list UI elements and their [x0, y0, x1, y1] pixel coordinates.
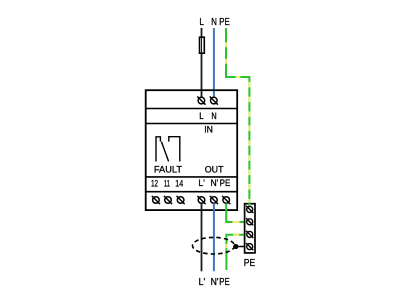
divider above 12 11 14 label row: [146, 176, 238, 178]
svg-text:N': N': [211, 277, 219, 288]
svg-text:PE: PE: [244, 258, 256, 269]
svg-text:L': L': [198, 178, 205, 188]
svg-text:N': N': [210, 178, 218, 188]
wire N' output (blue): [213, 203, 215, 271]
wire L' output (black): [201, 203, 203, 271]
relay contact: terminal 14 post: [169, 137, 180, 162]
device box outline: [146, 90, 238, 210]
relay contact: moving arm (11): [161, 142, 168, 162]
wire PE from rail screw 3 to load: [226, 235, 245, 270]
rail screw 2: [246, 218, 253, 225]
svg-text:PE: PE: [220, 178, 231, 188]
PE rail block: [245, 204, 255, 253]
rail screw 1: [246, 206, 253, 213]
svg-text:PE: PE: [219, 17, 230, 28]
svg-text:L: L: [199, 17, 204, 28]
terminal screw L input: [197, 97, 205, 105]
terminal screw N' out: [210, 196, 218, 204]
relay changeover contact: terminal 12 post: [156, 137, 160, 162]
svg-text:PE: PE: [219, 277, 230, 288]
svg-text:14: 14: [175, 178, 183, 188]
svg-text:12: 12: [151, 178, 158, 188]
wire L from supply to fuse: [201, 28, 203, 38]
svg-text:OUT: OUT: [205, 164, 224, 174]
svg-text:L: L: [199, 110, 203, 121]
divider below L N label row: [146, 123, 238, 125]
divider above bottom terminal row: [146, 191, 238, 193]
terminal screw 14: [177, 196, 185, 204]
wire L from fuse to terminal: [201, 53, 203, 97]
rail screw 3: [246, 231, 253, 238]
svg-text:N: N: [211, 110, 216, 121]
junction dot on shield: [233, 244, 238, 249]
terminal screw PE out: [222, 196, 230, 204]
rail screw 4: [246, 243, 253, 250]
svg-text:IN: IN: [204, 125, 213, 135]
terminal screw N input: [210, 97, 218, 105]
terminal screw 12: [152, 196, 160, 204]
svg-text:N: N: [211, 17, 217, 28]
cable ellipse (shield): [193, 237, 235, 254]
fuse F1: [200, 37, 205, 53]
terminal screw L' out: [197, 196, 205, 204]
svg-text:11: 11: [164, 178, 170, 188]
wire PE stub into rail: [248, 203, 250, 207]
wire PE from box to PE rail screw 2: [226, 203, 245, 222]
wire shield to PE rail screw 4: [235, 246, 246, 248]
svg-text:L': L': [199, 277, 206, 288]
terminal screw 11: [164, 196, 172, 204]
divider below input terminals: [146, 108, 238, 110]
svg-text:FAULT: FAULT: [154, 164, 183, 174]
wire N supply (blue): [213, 28, 215, 98]
wire PE supply (green/yellow): [226, 28, 249, 203]
